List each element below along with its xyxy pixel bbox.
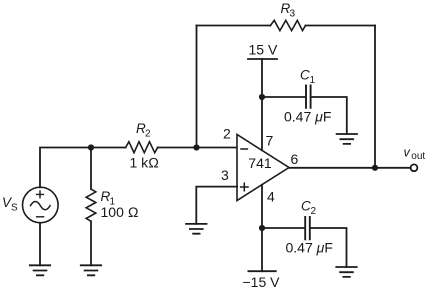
svg-text:out: out [411, 151, 425, 162]
label C1 value 0.47 uF [284, 108, 331, 124]
op-amp U1 741 [237, 135, 289, 201]
svg-text:0.47 μF: 0.47 μF [286, 239, 333, 255]
svg-text:7: 7 [266, 133, 274, 149]
label R3 [281, 1, 296, 20]
pin 2 label [223, 126, 231, 142]
wire: R2 to op-amp pin 2 [158, 147, 237, 149]
svg-text:1: 1 [310, 75, 316, 86]
wire: C1 left [262, 96, 305, 98]
pin 4 label [267, 189, 275, 205]
ground below R1 [81, 265, 101, 275]
label R1 [101, 189, 116, 208]
junction: output / feedback node [372, 165, 378, 171]
label VS [2, 195, 18, 214]
pin 3 label [221, 167, 229, 183]
svg-text:2: 2 [311, 206, 317, 217]
wire: R1 bottom stem [90, 221, 92, 265]
svg-text:1 kΩ: 1 kΩ [130, 155, 160, 171]
label vout [404, 146, 426, 163]
label R1 value 100 ohm [101, 204, 139, 220]
wire: source bottom stem [39, 223, 41, 265]
svg-text:15 V: 15 V [249, 42, 278, 58]
ground below VS [30, 265, 50, 275]
label 741 [248, 155, 272, 171]
wire: output pin 6 to terminal [289, 167, 411, 169]
wire: +15V to pin 7 [261, 59, 263, 150]
capacitor C2 [305, 217, 310, 239]
wire: C2 right to ground [311, 228, 347, 267]
svg-text:0.47 μF: 0.47 μF [284, 108, 331, 124]
resistor R2 [126, 142, 158, 153]
svg-text:C: C [300, 68, 310, 83]
supply +15V bar [248, 58, 277, 60]
svg-text:100 Ω: 100 Ω [101, 204, 139, 220]
wire: C2 left [262, 227, 304, 229]
wire: feedback top left segment [197, 25, 271, 27]
voltage source VS [23, 187, 59, 223]
junction: feedback node at pin 2 [193, 144, 199, 150]
svg-text:6: 6 [291, 151, 299, 167]
junction: R1 top node [88, 144, 94, 150]
svg-text:v: v [404, 146, 411, 160]
pin 6 label [291, 151, 299, 167]
label C1 [300, 68, 316, 87]
label R2 [136, 121, 151, 140]
wire: pin 3 to ground [196, 187, 237, 224]
resistor R1 [86, 189, 96, 221]
label -15V [243, 274, 281, 290]
wire: source top to input node [40, 148, 126, 188]
label +15V [249, 42, 278, 58]
svg-text:−15 V: −15 V [243, 274, 281, 290]
svg-text:4: 4 [267, 189, 275, 205]
ground at pin 3 [186, 224, 206, 234]
ground at C1 [337, 134, 357, 144]
wire: R1 top stem [90, 148, 92, 190]
svg-text:C: C [301, 199, 311, 214]
label C2 [301, 199, 317, 218]
resistor R3 [270, 20, 305, 30]
ground at C2 [336, 267, 356, 277]
svg-text:2: 2 [145, 128, 151, 139]
label C2 value 0.47 uF [286, 239, 333, 255]
capacitor C1 [306, 86, 311, 108]
wire: C1 right to ground [311, 97, 346, 134]
pin 7 label [266, 133, 274, 149]
terminal: vout open circle [411, 164, 418, 171]
svg-text:741: 741 [248, 155, 272, 171]
wire: feedback vertical left [196, 26, 198, 148]
svg-text:3: 3 [290, 9, 296, 20]
wire: feedback vertical right to output [374, 26, 376, 169]
junction: pin 7 / C1 node [259, 94, 265, 100]
op-amp inverting input minus sign [241, 148, 247, 150]
svg-text:S: S [11, 203, 18, 214]
svg-text:3: 3 [221, 167, 229, 183]
wire: feedback top right segment [306, 25, 376, 27]
op-amp non-inverting input plus sign [241, 183, 248, 190]
label R2 value 1 kohm [130, 155, 160, 171]
wire: pin 4 to -15V [261, 185, 263, 272]
supply -15V bar [248, 270, 275, 272]
junction: pin 4 / C2 node [259, 225, 265, 231]
svg-text:2: 2 [223, 126, 231, 142]
